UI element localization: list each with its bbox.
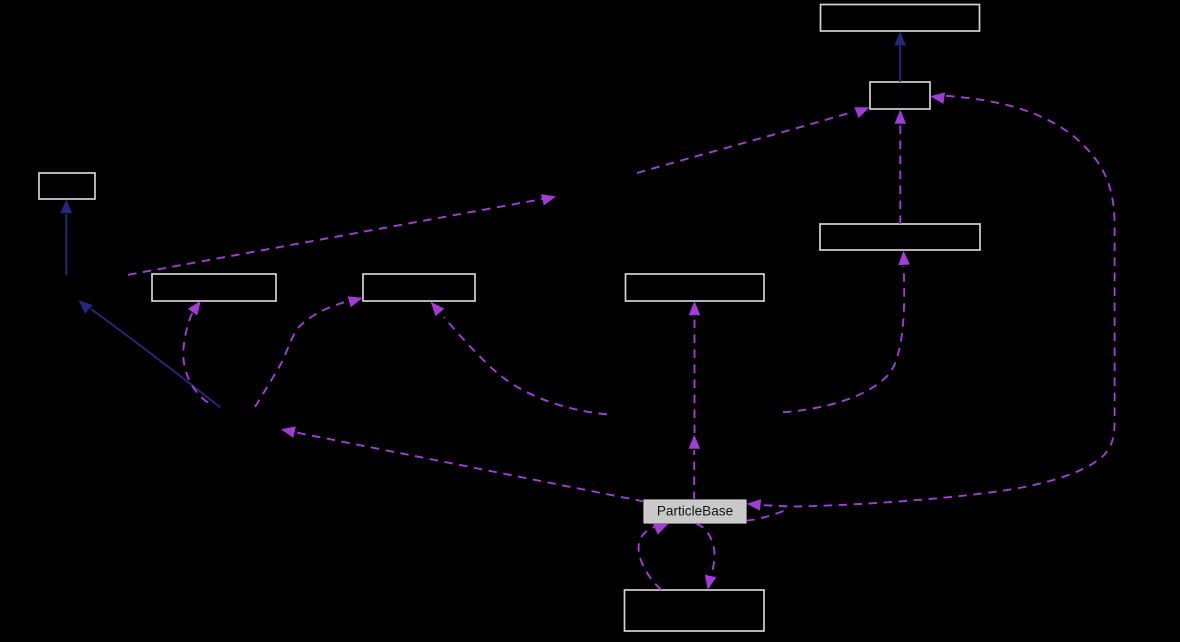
svg-text:ParticleBase: ParticleBase xyxy=(657,504,733,519)
